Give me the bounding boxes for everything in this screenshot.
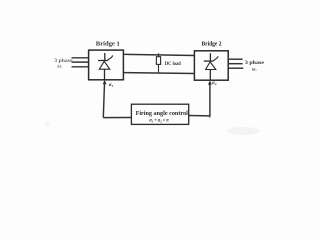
wire 3-phase input line 2 [72, 61, 89, 63]
control box (Firing angle control) [131, 104, 188, 124]
resistor R1 top tick [158, 53, 160, 56]
wire 3-phase output line 1 [228, 58, 242, 60]
thyristor Q1 cathode bar [98, 60, 107, 62]
resistor R1 body [156, 57, 160, 65]
wire 3-phase input line 3 [72, 66, 89, 68]
svg-text:α1 + α2 = π: α1 + α2 = π [149, 118, 169, 124]
thyristor Q1 anode lead [104, 53, 106, 61]
converter box U2 (Bridge 2) [194, 51, 228, 80]
svg-text:Firing angle control: Firing angle control [136, 111, 189, 117]
stub below corner [209, 116, 211, 118]
faint scan smudge left [45, 121, 50, 127]
svg-text:a.c.: a.c. [57, 64, 63, 70]
resistor R1 bottom stem [158, 64, 160, 73]
wire DC bus top [123, 54, 194, 55]
wire DC bus bottom [123, 72, 194, 75]
svg-text:3 phase: 3 phase [245, 60, 265, 66]
thyristor Q2 cathode bar [204, 60, 213, 62]
svg-text:DC load: DC load [165, 62, 181, 67]
thyristor Q1 gate [107, 56, 113, 61]
converter box U1 (Bridge 1) [89, 50, 124, 80]
arrowhead into bridge 2 [208, 80, 212, 84]
thyristor Q1 bottom lead [104, 69, 106, 80]
wire firing control to bridge 1 (vertical) [103, 117, 131, 119]
svg-text:Bridge 1: Bridge 1 [96, 40, 120, 47]
arrowhead into bridge 1 [103, 80, 107, 85]
svg-text:a.c.: a.c. [252, 66, 257, 72]
thyristor Q2 triangle [206, 62, 216, 70]
faint scan smudge lower right [227, 127, 259, 135]
wire 3-phase input line 1 [72, 57, 89, 59]
svg-text:α1: α1 [109, 83, 114, 88]
wire 3-phase output line 3 [228, 67, 243, 69]
thyristor Q2 bottom lead [209, 70, 211, 81]
svg-text:Bridge 2: Bridge 2 [202, 41, 222, 48]
wire firing control to bridge 2 (horizontal + vertical) [189, 84, 210, 116]
svg-text:α2: α2 [212, 81, 217, 86]
wire 3-phase output line 2 [228, 63, 242, 65]
thyristor Q2 anode lead [209, 53, 211, 61]
thyristor Q1 triangle [99, 61, 110, 69]
thyristor Q2 gate [213, 56, 218, 61]
